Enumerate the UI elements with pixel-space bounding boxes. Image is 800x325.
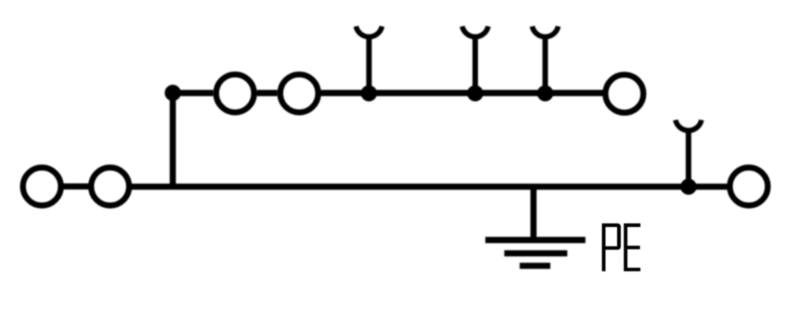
terminal circle bottom-right xyxy=(730,168,768,206)
ground bar 2 xyxy=(504,250,567,256)
terminal circle left-1 xyxy=(23,168,61,206)
plug connector fork 2 xyxy=(462,26,488,93)
wire bottom rail xyxy=(132,184,728,190)
ground PE stem xyxy=(530,187,536,240)
terminal circle left-2 xyxy=(91,168,129,206)
label PE letter E xyxy=(624,223,641,271)
plug connector fork 3 xyxy=(532,26,558,93)
wire vertical branch xyxy=(170,93,176,190)
junction dot fork 3 xyxy=(537,85,553,101)
terminal circle top-2 xyxy=(280,74,318,112)
terminal circle top-right xyxy=(605,75,643,113)
wire top rail segment 1 xyxy=(173,90,213,96)
junction dot fork 1 xyxy=(361,85,377,101)
ground bar 3 xyxy=(520,263,551,269)
ground bar 1 xyxy=(485,237,585,243)
junction dot fork 2 xyxy=(467,85,483,101)
junction dot fork 4 xyxy=(680,179,696,195)
junction dot corner xyxy=(165,85,181,101)
wire top rail segment 3 xyxy=(321,90,603,96)
label PE letter P xyxy=(602,223,621,271)
wire between left circles xyxy=(64,183,90,189)
plug connector fork 1 xyxy=(356,26,382,93)
wire top rail segment 2 xyxy=(257,90,277,96)
terminal circle top-1 xyxy=(216,74,254,112)
plug connector fork 4 (bottom rail) xyxy=(676,120,702,187)
